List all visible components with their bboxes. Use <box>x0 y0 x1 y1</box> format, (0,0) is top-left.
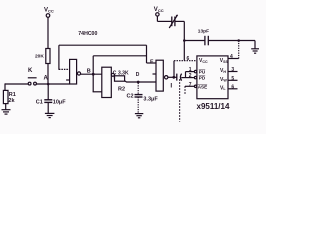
svg-text:F: F <box>150 59 154 65</box>
gate U1A <box>70 59 77 84</box>
wire to R1 <box>4 84 6 90</box>
gate U1B <box>102 67 112 97</box>
pin 7 bubble <box>194 85 196 87</box>
wire node E row <box>168 76 177 78</box>
ground <box>2 110 11 114</box>
node D <box>137 81 140 84</box>
wire pin7 <box>185 86 195 95</box>
gate U1C input stub <box>153 73 157 75</box>
gate U1C bubble <box>165 76 168 79</box>
wire <box>113 75 115 79</box>
wire <box>175 21 184 60</box>
wire <box>146 45 148 63</box>
gate U1B bubble <box>111 73 114 76</box>
wire bus <box>184 40 204 42</box>
IC X9511 body <box>197 56 228 99</box>
svg-text:K: K <box>28 68 33 74</box>
wire node A row <box>5 83 29 85</box>
node B <box>92 73 95 76</box>
ground <box>251 49 259 53</box>
svg-text:13pF: 13pF <box>198 28 209 34</box>
svg-text:C: C <box>113 71 117 77</box>
wire to ground <box>254 41 256 49</box>
svg-text:B: B <box>87 68 91 74</box>
capacitor 13pF <box>205 36 208 46</box>
pin 1 bubble <box>194 70 196 72</box>
svg-text:ASE: ASE <box>198 85 207 90</box>
wire <box>93 91 102 93</box>
svg-text:A: A <box>44 76 49 82</box>
wire cross line <box>93 55 146 57</box>
svg-text:VCC: VCC <box>154 7 164 13</box>
svg-text:74HC00: 74HC00 <box>78 31 97 37</box>
svg-text:x9511/14: x9511/14 <box>197 102 230 111</box>
svg-text:3.3K: 3.3K <box>118 71 129 77</box>
svg-text:4: 4 <box>230 54 233 60</box>
resistor 20K <box>46 49 50 64</box>
wire <box>92 56 94 92</box>
svg-text:2k: 2k <box>8 98 15 104</box>
switch K <box>28 78 37 85</box>
svg-text:D: D <box>136 72 140 78</box>
svg-text:PU: PU <box>199 70 206 75</box>
wire <box>59 68 70 70</box>
dashed wire down <box>179 79 181 121</box>
svg-text:2: 2 <box>189 73 192 79</box>
gate U1C <box>156 60 163 91</box>
svg-text:6: 6 <box>187 56 190 62</box>
pin 6 wire <box>228 88 238 90</box>
trimmer capacitor <box>169 15 177 28</box>
wire to pin1 <box>186 72 195 78</box>
svg-text:VL: VL <box>220 85 226 91</box>
svg-text:3.3μF: 3.3μF <box>143 96 158 102</box>
Vcc bus junction <box>183 39 186 42</box>
capacitor C1 <box>44 84 52 113</box>
dotted wire to pin4 <box>238 41 240 59</box>
pin 3 wire <box>228 71 238 73</box>
svg-text:PD: PD <box>199 76 206 81</box>
svg-text:6: 6 <box>231 84 234 90</box>
wire <box>5 104 7 110</box>
resistor R1 <box>3 90 8 103</box>
wire <box>58 45 60 70</box>
gate U1A bubble <box>77 72 80 75</box>
svg-text:VCC: VCC <box>199 58 208 64</box>
wire <box>36 83 69 85</box>
wire bus <box>209 40 256 42</box>
gate U1A input stub <box>66 79 70 81</box>
wire node B row <box>81 73 102 75</box>
wire <box>47 64 49 85</box>
svg-text:VW: VW <box>220 77 227 83</box>
svg-text:I: I <box>170 82 172 89</box>
svg-text:VH: VH <box>220 68 226 74</box>
capacitor coupling <box>177 74 195 81</box>
pin 4 wire <box>228 58 239 60</box>
wire <box>173 61 175 78</box>
ground <box>45 113 55 117</box>
svg-text:R2: R2 <box>118 87 125 93</box>
svg-text:20K: 20K <box>35 54 44 60</box>
svg-text:5: 5 <box>231 76 234 82</box>
wire <box>147 62 157 64</box>
node E junction <box>172 76 175 79</box>
wire feedback top <box>59 44 147 46</box>
svg-text:10μF: 10μF <box>53 99 66 105</box>
resistor R2 <box>115 76 125 81</box>
node A <box>47 83 50 86</box>
pin 2 bubble <box>194 76 196 78</box>
svg-text:7: 7 <box>189 82 192 88</box>
svg-text:3: 3 <box>231 67 234 73</box>
capacitor C2 <box>135 83 143 114</box>
Vcc symbol left <box>46 14 50 49</box>
ground <box>135 114 143 118</box>
svg-text:VSS: VSS <box>220 58 229 64</box>
pin 5 wire <box>228 79 238 81</box>
wire node D row <box>125 81 156 82</box>
svg-text:VCC: VCC <box>44 8 54 14</box>
junction <box>237 39 240 42</box>
svg-text:C1: C1 <box>36 99 43 105</box>
Vcc symbol right <box>156 13 172 22</box>
svg-text:C2: C2 <box>127 93 134 99</box>
wire to pin6 <box>174 60 197 62</box>
